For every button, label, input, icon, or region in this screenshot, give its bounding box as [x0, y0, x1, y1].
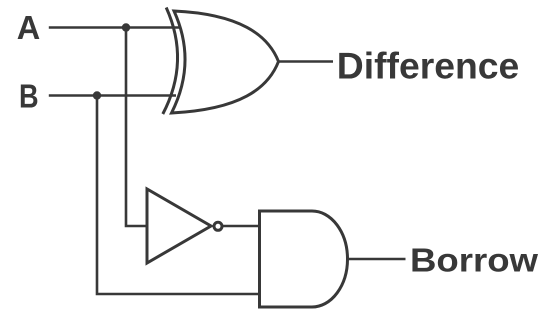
and-gate U3 body	[260, 211, 348, 307]
svg-text:A: A	[17, 9, 41, 46]
xor-gate U1 outer back curve	[163, 8, 178, 115]
wire A input	[49, 26, 181, 29]
xor-gate U1 body	[172, 11, 279, 113]
wire A branch to NOT gate	[126, 28, 147, 227]
not-gate U2 bubble	[214, 222, 222, 230]
node junction on A	[122, 23, 130, 31]
not-gate U2 triangle	[147, 189, 211, 263]
svg-text:Difference: Difference	[337, 45, 520, 86]
node junction on B	[93, 91, 101, 99]
svg-text:B: B	[19, 78, 39, 115]
wire B input	[49, 94, 176, 97]
wire XOR output to Difference	[279, 60, 334, 63]
svg-text:Borrow: Borrow	[410, 242, 538, 279]
wire B branch to AND gate	[97, 96, 260, 295]
wire AND output to Borrow	[348, 258, 406, 261]
wire NOT output to AND gate	[222, 225, 260, 228]
